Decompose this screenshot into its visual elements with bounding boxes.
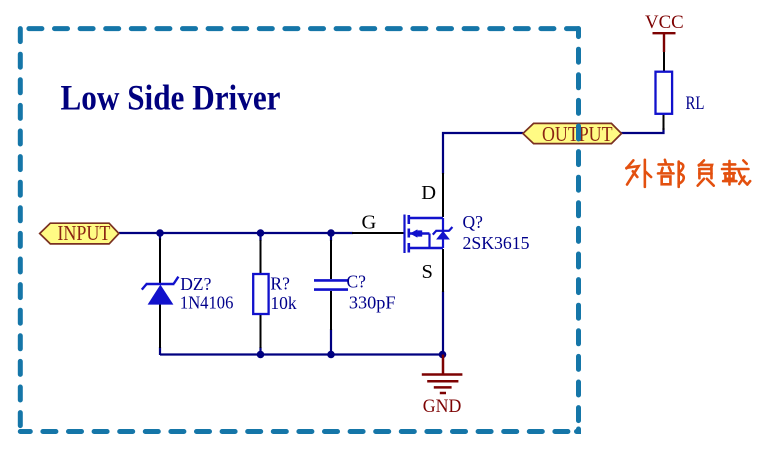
svg-text:1N4106: 1N4106 (180, 293, 234, 313)
svg-text:G: G (362, 212, 377, 234)
svg-text:DZ?: DZ? (180, 274, 211, 294)
svg-text:D: D (421, 182, 436, 204)
svg-text:10k: 10k (270, 293, 297, 313)
svg-text:Low Side Driver: Low Side Driver (61, 78, 281, 118)
svg-text:Q?: Q? (463, 212, 484, 232)
svg-text:330pF: 330pF (349, 292, 396, 312)
svg-text:GND: GND (423, 397, 462, 417)
svg-text:2SK3615: 2SK3615 (463, 233, 530, 253)
svg-text:C?: C? (347, 272, 367, 292)
svg-text:S: S (422, 261, 433, 283)
svg-text:VCC: VCC (645, 12, 684, 33)
svg-text:R?: R? (270, 274, 290, 294)
svg-text:RL: RL (686, 94, 705, 114)
svg-text:INPUT: INPUT (57, 222, 110, 245)
